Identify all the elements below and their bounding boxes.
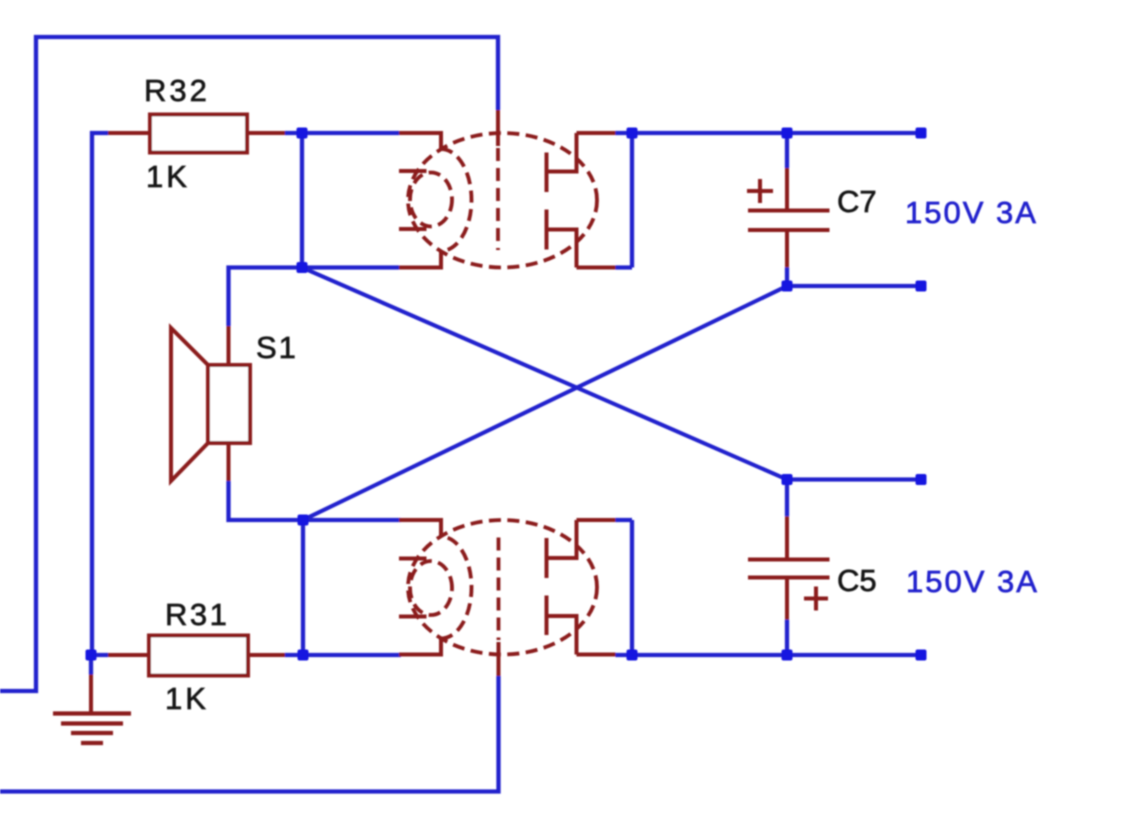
node C5 top: [782, 474, 793, 485]
svg-text:C5: C5: [837, 563, 877, 598]
capacitor C7: [748, 168, 830, 267]
wire bottom rail: [91, 653, 921, 657]
terminal dot second: [916, 281, 927, 292]
svg-text:R31: R31: [165, 597, 229, 632]
node tube2 plate bottom: [627, 650, 638, 661]
speaker S1: [171, 326, 250, 481]
wire node A horizontals (top rail): [302, 133, 632, 268]
svg-text:150V 3A: 150V 3A: [905, 195, 1038, 230]
svg-text:S1: S1: [256, 330, 298, 365]
node C7 bottom: [782, 281, 793, 292]
capacitor C5: [748, 516, 830, 619]
wire speaker branch: [229, 268, 304, 521]
node tube1 cathode rail: [297, 262, 308, 273]
tube U1 grid lead: [496, 110, 500, 146]
terminal dot third: [916, 474, 927, 485]
ground: [53, 655, 131, 743]
resistor R31: [108, 636, 285, 676]
svg-text:150V 3A: 150V 3A: [906, 564, 1039, 599]
resistor R32: [108, 115, 302, 153]
vacuum tube U1 (top): [399, 133, 616, 268]
C7 polarity plus: [747, 179, 773, 203]
junction node dots: [86, 128, 927, 661]
node tube1 plate top: [627, 128, 638, 139]
C5 polarity plus: [804, 587, 828, 611]
svg-text:C7: C7: [837, 184, 877, 219]
svg-text:1K: 1K: [146, 159, 190, 194]
node R31-out: [298, 650, 309, 661]
wire cross diagonal 2: [303, 286, 787, 520]
node top rail / C7: [782, 128, 793, 139]
wire left column tube1: [302, 133, 399, 268]
svg-text:1K: 1K: [165, 681, 209, 716]
wire outer feedback loop (top-left): [0, 37, 498, 691]
wire C7 column: [787, 133, 921, 286]
wire bottom return: [0, 676, 499, 792]
wire cross diagonal 1: [302, 268, 787, 480]
node C5 bottom: [782, 650, 793, 661]
svg-text:R32: R32: [144, 73, 210, 108]
vacuum tube U2 (bottom, mirrored): [399, 520, 616, 655]
wire left inner vertical: [92, 133, 108, 655]
tube U1 grid dashed: [496, 148, 500, 250]
tube U2 grid lead: [497, 642, 501, 676]
node tube2 top rail: [298, 515, 309, 526]
wire tube2 row: [303, 520, 632, 655]
node R32-out: [297, 128, 308, 139]
tube U2 grid dashed: [497, 538, 501, 641]
terminal dot top: [916, 128, 927, 139]
wire top rail right: [632, 131, 921, 135]
wire C5 column: [787, 480, 921, 656]
terminal dot bottom: [916, 650, 927, 661]
node ground / R31: [86, 650, 97, 661]
